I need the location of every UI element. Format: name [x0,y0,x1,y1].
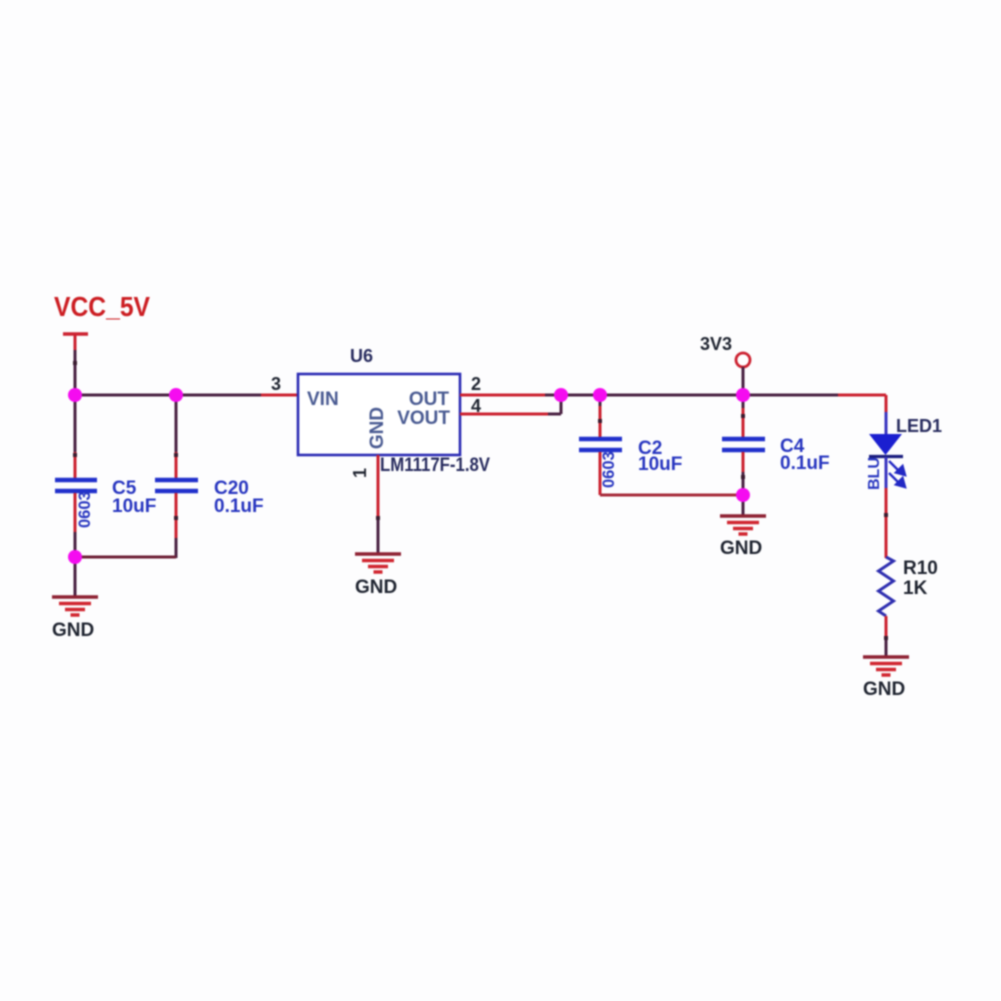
wire R10 to ground [885,616,888,640]
op IC U6 LM1117F-1.8V [298,374,460,455]
junction node VCC/C5 [68,388,82,402]
wire VCC bar to node A [74,350,77,395]
wire node B to ground [74,557,77,597]
junction node C4 gnd [736,488,750,502]
svg-text:GND: GND [367,407,388,449]
capacitor C5 [55,395,156,558]
svg-text:BLU: BLU [866,457,883,490]
svg-text:0603: 0603 [76,491,94,528]
wire C20 bottom to C5 bottom [75,556,176,559]
resistor R10 [879,557,938,616]
svg-text:2: 2 [471,374,481,394]
svg-text:U6: U6 [350,346,373,366]
svg-text:GND: GND [863,679,905,700]
svg-text:1: 1 [350,468,370,478]
ground (U6) [355,554,401,572]
svg-text:LED1: LED1 [896,416,942,436]
wire main 3V3 net [561,394,886,397]
svg-text:R10: R10 [903,558,938,579]
junction node C2 [593,388,607,402]
junction node C5/C20 gnd [68,550,82,564]
svg-text:GND: GND [52,620,94,641]
wire LED1 cathode to R10 [885,457,888,490]
wire C2 bottom to C4 ground node [600,494,743,497]
wire C4 node to ground [742,495,745,516]
svg-text:LM1117F-1.8V: LM1117F-1.8V [380,455,490,476]
wire U6 GND pin to ground [377,455,380,519]
svg-text:VIN: VIN [307,389,339,410]
wire corner to LED1 [838,394,886,397]
wire pin 2 OUT [460,394,547,397]
svg-text:OUT: OUT [409,389,450,410]
wire ticks [73,361,888,640]
diode LED1 [866,416,942,490]
capacitor C20 [155,395,264,558]
wire 3V3 terminal to net [742,367,745,395]
wire main horizontal VCC net [75,394,298,397]
junction node OUT/VOUT [554,388,568,402]
power bar symbol VCC_5V [63,332,88,335]
svg-text:VOUT: VOUT [397,408,450,429]
svg-text:3: 3 [271,374,281,394]
svg-text:10uF: 10uF [112,496,156,517]
ground (R10) [863,657,909,675]
svg-text:10uF: 10uF [638,454,682,475]
wire pin 3 stub [261,394,298,397]
svg-text:0603: 0603 [600,451,618,488]
svg-text:3V3: 3V3 [700,334,732,354]
ground (C5/C20) [52,597,98,615]
junction node 3V3/C4 [736,388,750,402]
junction node C20 [169,388,183,402]
capacitor C4 [722,395,830,495]
wire pin 4 VOUT [460,413,550,416]
capacitor C2 [579,395,682,495]
svg-text:1K: 1K [903,578,928,599]
ground (C2/C4) [720,516,766,534]
svg-text:GND: GND [355,577,397,598]
svg-text:VCC_5V: VCC_5V [54,291,150,322]
svg-text:0.1uF: 0.1uF [214,496,264,517]
svg-text:0.1uF: 0.1uF [780,453,830,474]
svg-text:GND: GND [720,538,762,559]
light arrows [889,461,905,487]
